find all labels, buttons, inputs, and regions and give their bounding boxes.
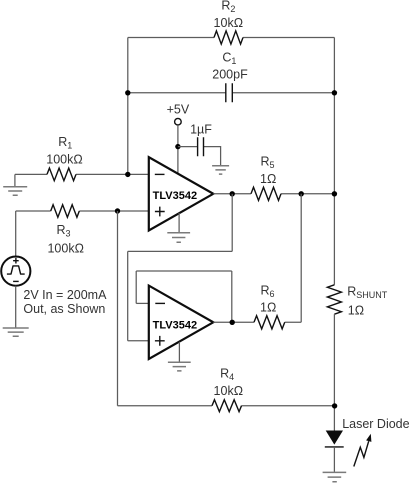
- node: right rail junction at output row: [332, 191, 337, 196]
- pin: U2 non-inverting (+): [155, 336, 165, 346]
- wire: C1 row: [128, 92, 335, 94]
- ground: U2: [168, 362, 191, 371]
- svg-text:TLV3542: TLV3542: [153, 319, 197, 331]
- label R5: [261, 154, 275, 170]
- label R1: [58, 135, 72, 151]
- svg-text:1Ω: 1Ω: [348, 304, 364, 318]
- wire: U2 feedback top run: [136, 270, 232, 272]
- resistor R1: [47, 168, 76, 181]
- value 100kΩ (R3): [47, 242, 83, 256]
- svg-text:2V In = 200mA: 2V In = 200mA: [23, 288, 107, 302]
- node: U2 output junction: [230, 320, 235, 325]
- node: C1 left junction: [125, 90, 130, 95]
- ground: U1: [167, 233, 190, 242]
- wire: U2 feedback left vertical: [135, 271, 137, 303]
- svg-text:1µF: 1µF: [190, 122, 212, 136]
- label R4: [220, 367, 234, 383]
- wire: U2 inverting lead: [136, 302, 149, 304]
- pin: U1 non-inverting (+): [155, 207, 165, 217]
- resistor RSHUNT: [327, 285, 341, 314]
- svg-text:1Ω: 1Ω: [260, 301, 276, 315]
- wire: U2 output row: [213, 321, 301, 323]
- wire: right rail vertical (top section): [333, 38, 335, 285]
- wire: R4 row: [118, 405, 335, 407]
- resistor R3: [51, 205, 80, 218]
- wire: loop bottom run: [128, 250, 233, 252]
- node: U1 output junction: [230, 191, 235, 196]
- pin: U1 inverting (−): [155, 173, 165, 175]
- resistor R5: [251, 187, 281, 200]
- value 1µF: [190, 122, 212, 136]
- laser diode D1: [325, 431, 344, 447]
- value 1Ω (RSHUNT): [348, 304, 364, 318]
- svg-text:100kΩ: 100kΩ: [47, 242, 83, 256]
- label R2: [221, 0, 235, 14]
- value 1Ω (R5): [260, 172, 276, 186]
- svg-text:100kΩ: 100kΩ: [46, 152, 82, 166]
- label Laser Diode: [342, 417, 409, 431]
- value 10kΩ (R4): [214, 384, 244, 398]
- value 200pF (C1): [212, 67, 248, 81]
- wire: source top lead: [15, 211, 17, 257]
- op-amp U1 TLV3542: [149, 157, 214, 230]
- svg-text:1Ω: 1Ω: [260, 172, 276, 186]
- wire: +5V drop to op-amp U1: [177, 125, 179, 173]
- label: source annotation: [23, 288, 107, 316]
- capacitor C1: [226, 83, 233, 102]
- svg-text:10kΩ: 10kΩ: [214, 16, 244, 30]
- capacitor 1µF: [198, 137, 204, 156]
- label R3: [57, 223, 71, 239]
- node: C1 right junction: [332, 90, 337, 95]
- ground: bypass capacitor: [212, 166, 229, 174]
- svg-text:TLV3542: TLV3542: [153, 190, 197, 202]
- source V1 pulse generator: [1, 257, 30, 286]
- label RSHUNT: [347, 285, 388, 300]
- wire: U2 feedback right vertical: [231, 271, 233, 322]
- resistor R6: [254, 316, 285, 329]
- wire: U1 output row: [213, 193, 334, 195]
- wire: source bottom lead: [15, 286, 17, 328]
- node: U1 inverting input junction: [125, 172, 130, 177]
- node: U1 non-inverting / R4 tap junction: [115, 208, 120, 213]
- node: R5/R6 link junction: [299, 191, 304, 196]
- power +5V terminal: [167, 103, 190, 125]
- label U1 TLV3542: [153, 190, 197, 202]
- wire: U2 ground stem: [178, 342, 180, 362]
- wire: U1 output to U2 loop (down): [231, 194, 233, 252]
- svg-text:+5V: +5V: [167, 103, 190, 117]
- label R6: [261, 283, 275, 299]
- wire: right rail vertical (middle section): [333, 314, 335, 430]
- value 1Ω (R6): [260, 301, 276, 315]
- label U2 TLV3542: [153, 319, 197, 331]
- label C1: [222, 51, 236, 67]
- ground: laser diode: [323, 472, 347, 481]
- wire: top feedback row (R2 row): [128, 37, 335, 39]
- light emission arrow: [354, 434, 372, 467]
- op-amp U2 TLV3542: [149, 286, 214, 359]
- ground: R1 input: [3, 174, 27, 195]
- wire: loop left vertical: [127, 251, 129, 340]
- value 100kΩ (R1): [46, 152, 82, 166]
- wire: R1 row: [15, 173, 149, 175]
- resistor R4: [212, 400, 242, 412]
- wire: R5/R6 link vertical: [300, 194, 302, 322]
- svg-text:10kΩ: 10kΩ: [214, 384, 244, 398]
- wire: R4 left vertical: [117, 211, 119, 406]
- svg-text:Out, as Shown: Out, as Shown: [23, 302, 105, 316]
- node: supply/bypass junction: [175, 144, 180, 149]
- wire: U1 ground stem: [178, 213, 180, 232]
- wire: U2 non-inverting lead: [128, 340, 149, 342]
- node: R4 / laser diode junction: [332, 403, 337, 408]
- value 10kΩ (R2): [214, 16, 244, 30]
- resistor R2: [214, 31, 243, 44]
- wire: R3 row: [16, 210, 149, 212]
- wire: laser diode cathode lead: [333, 447, 335, 472]
- wire: left feedback vertical: [127, 38, 129, 175]
- pin: U2 inverting (−): [155, 302, 165, 304]
- svg-text:200pF: 200pF: [212, 67, 248, 81]
- svg-text:Laser Diode: Laser Diode: [342, 417, 409, 431]
- ground: source: [3, 328, 29, 336]
- wire: bypass branch: [178, 147, 221, 166]
